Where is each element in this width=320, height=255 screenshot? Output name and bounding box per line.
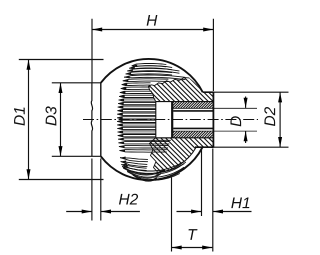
section hatching, knob material above bushing (140, 0, 220, 190)
dimension H2 line (66, 211, 140, 213)
dimension H2 extension lines (92, 159, 101, 221)
ball outline, upper arc (91, 59, 257, 180)
arrowheads dimension D (244, 98, 248, 108)
dimension D3 extension lines (52, 83, 92, 157)
arrowheads dimension D3 (59, 83, 63, 93)
label H2 (119, 194, 138, 205)
label D2 (264, 107, 275, 126)
bushing left end edge (155, 102, 157, 138)
dimension H1 extension lines (202, 149, 213, 252)
label D (230, 116, 241, 126)
arrowheads dimension H2 (82, 210, 92, 214)
ball outline, lower arc (101, 147, 203, 180)
label H1 (231, 197, 249, 208)
bushing inner wall (thread bottom), thick (171, 102, 173, 138)
arrowheads dimension T (172, 246, 182, 250)
label H (147, 15, 158, 26)
dimension H1 line (177, 211, 252, 213)
arrowheads dimension H (92, 28, 102, 32)
arrowheads dimension H1 (191, 210, 201, 214)
bushing section hatching, top band (170, 53, 215, 155)
bushing section hatching, bottom band (170, 83, 215, 185)
centerline (horizontal axis, dash-dot) (83, 119, 258, 121)
arrowheads dimension D1 (27, 60, 31, 70)
dimension D3 line (60, 83, 62, 157)
flat face wavy edge (left) (91, 83, 92, 157)
label T (189, 229, 198, 240)
thread major diameter lines + D extension lines (171, 108, 257, 131)
dimension H line (92, 29, 213, 31)
flat top and bottom edges (92, 83, 101, 157)
dimension T line (172, 247, 213, 249)
dimension D2 line (279, 92, 281, 147)
knurled grip texture of ball knob (118, 63, 186, 181)
bushing outer shell lines (156, 102, 214, 138)
dimension T extension line (171, 178, 173, 252)
label D3 (46, 106, 57, 125)
dimension D line segments (245, 97, 247, 144)
dimension D1 line (28, 60, 30, 180)
label D1 (14, 107, 25, 125)
break-out boundary line, top (148, 78, 189, 102)
boss outline (cylindrical neck) (195, 92, 213, 147)
arrowheads dimension D2 (278, 92, 282, 102)
section hatching, knob material below bushing (140, 50, 220, 255)
dimension D1 extension lines (19, 60, 104, 180)
dimension H extension lines (19, 19, 289, 252)
flat rim edge line (100, 83, 102, 157)
break-out boundary, bottom arc (150, 138, 197, 173)
dimension D2 extension lines (214, 92, 289, 147)
boss right face (212, 92, 214, 148)
tapped bore lines (thick) (173, 111, 212, 128)
